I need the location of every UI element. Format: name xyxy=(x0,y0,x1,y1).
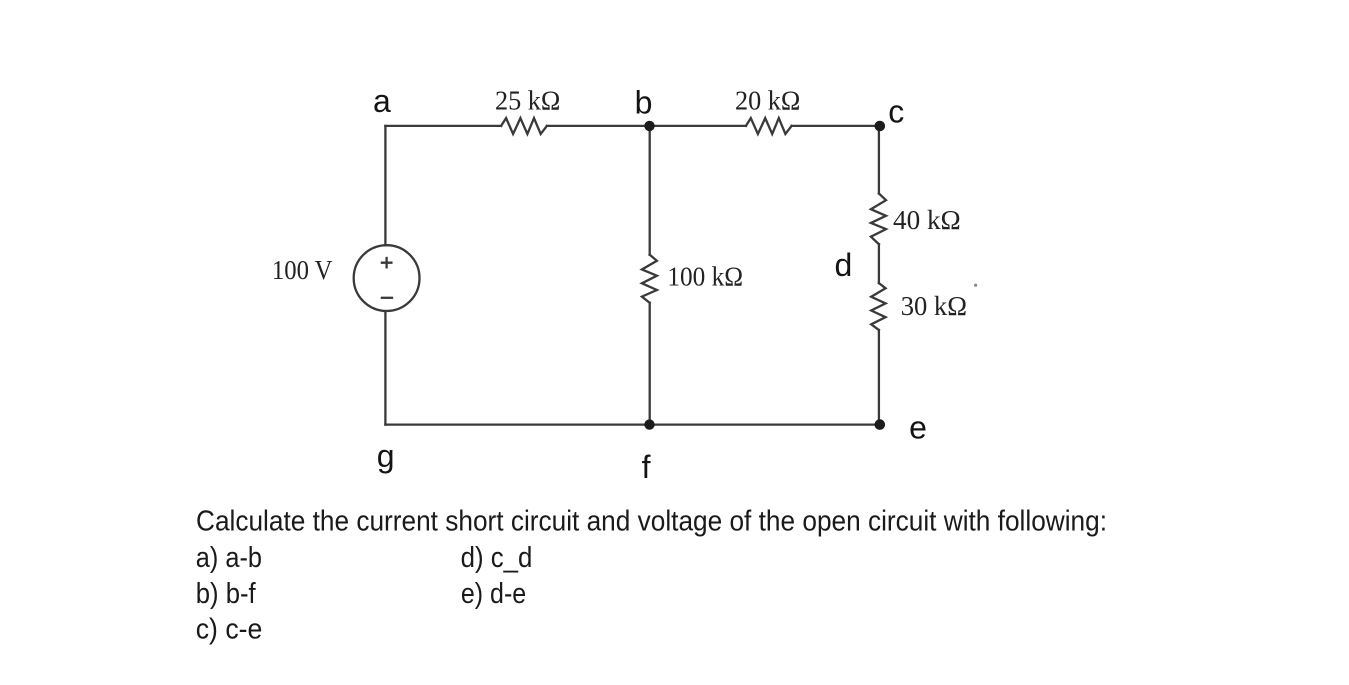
svg-text:Calculate the current short ci: Calculate the current short circuit and … xyxy=(196,506,1107,538)
svg-text:d) c_d: d) c_d xyxy=(461,542,533,574)
wire 30k resistor down to node e xyxy=(878,330,880,425)
wire 20k resistor to node c xyxy=(792,125,880,127)
svg-text:30 kΩ: 30 kΩ xyxy=(901,290,967,321)
svg-text:c) c-e: c) c-e xyxy=(196,613,263,645)
svg-text:25 kΩ: 25 kΩ xyxy=(495,85,560,116)
stray ink speck xyxy=(974,284,977,287)
svg-text:d: d xyxy=(835,247,853,283)
junction dot node f xyxy=(644,419,654,429)
junction dot node e xyxy=(875,419,886,430)
wire node a to 25k resistor (top left horizontal) xyxy=(385,125,501,127)
bottom wire node f to node e xyxy=(650,423,880,425)
junction dot node b xyxy=(644,121,654,131)
wire node c down to 40k resistor xyxy=(878,126,880,194)
svg-text:a: a xyxy=(373,83,391,119)
junction dot node c xyxy=(875,121,886,132)
svg-text:c: c xyxy=(888,93,904,129)
svg-text:e: e xyxy=(909,410,927,446)
svg-text:f: f xyxy=(642,449,651,485)
voltage source V1 100V circle xyxy=(354,245,420,311)
bottom wire node g to node f xyxy=(385,423,649,425)
resistor 100 kOhm (vertical zigzag) xyxy=(642,255,657,303)
resistor 25 kOhm (horizontal zigzag) xyxy=(501,118,547,134)
wire 100k resistor down to node f xyxy=(649,303,651,425)
wire voltage source down to node g xyxy=(384,311,386,425)
svg-text:20 kΩ: 20 kΩ xyxy=(735,85,800,116)
svg-text:40 kΩ: 40 kΩ xyxy=(893,204,961,235)
svg-text:b: b xyxy=(635,85,653,121)
wire node b to 20k resistor xyxy=(650,125,746,127)
resistor 30 kOhm (vertical zigzag) xyxy=(871,283,885,330)
resistor 20 kOhm (horizontal zigzag) xyxy=(746,118,792,134)
svg-text:e) d-e: e) d-e xyxy=(461,578,526,610)
svg-text:100 V: 100 V xyxy=(272,254,333,285)
voltage source plus sign xyxy=(382,258,392,267)
svg-text:100 kΩ: 100 kΩ xyxy=(667,261,743,292)
wire node a down to voltage source xyxy=(384,126,386,245)
svg-text:a) a-b: a) a-b xyxy=(196,542,262,574)
wire node b down to 100k resistor xyxy=(649,126,651,255)
wire 25k resistor to node b xyxy=(547,125,650,127)
svg-text:g: g xyxy=(377,438,395,474)
resistor 40 kOhm (vertical zigzag) xyxy=(871,194,886,245)
voltage source minus sign xyxy=(382,297,392,299)
wire node d between 40k and 30k xyxy=(878,244,880,283)
svg-text:b) b-f: b) b-f xyxy=(196,578,257,610)
